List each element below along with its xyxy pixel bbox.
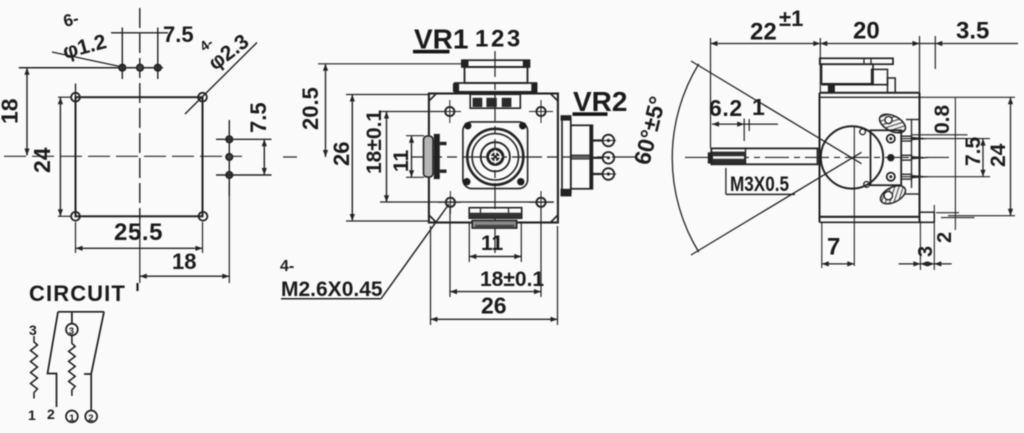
bushing outer circle	[467, 129, 523, 185]
terminal 2 circled (VR2)	[85, 411, 97, 425]
screw M2.6 top-left	[438, 100, 461, 123]
VR2 pin stub 3	[592, 173, 616, 175]
svg-text:60°±5°: 60°±5°	[629, 94, 671, 168]
centerline vertical	[494, 51, 496, 253]
pin 3 lead	[901, 174, 932, 179]
svg-text:7: 7	[827, 234, 840, 261]
screw M2.6 top-right	[529, 100, 553, 123]
rivet bottom-right	[517, 178, 524, 185]
centerline horizontal	[4, 155, 242, 157]
dim 18+-0.1 bottom	[450, 208, 544, 297]
pin 1 eyelet	[887, 135, 895, 143]
rotation fan lower line	[691, 152, 862, 255]
svg-text:7.5: 7.5	[962, 136, 985, 166]
right terminal block	[571, 125, 593, 189]
extension line y97 right	[921, 96, 1016, 98]
right boss column	[561, 115, 572, 196]
svg-text:24: 24	[987, 143, 1010, 167]
label 6-phi1.2	[52, 9, 120, 67]
shaft circle	[481, 142, 510, 171]
mounting hole bottom-right	[199, 212, 208, 221]
VR2 pin stub 2	[592, 157, 602, 159]
dim 26 bottom	[431, 226, 558, 325]
rivet bottom-left	[463, 178, 470, 185]
top pin housing	[470, 94, 520, 108]
svg-text:2: 2	[47, 406, 55, 422]
dim 26 left	[329, 95, 428, 222]
pin hole 3	[155, 28, 161, 80]
side pin hole 2	[226, 154, 232, 160]
shaft body	[711, 148, 817, 164]
side pin hole 3	[216, 172, 272, 178]
stray mark	[136, 283, 138, 291]
rivet top-left	[464, 122, 471, 129]
svg-text:M3X0.5: M3X0.5	[730, 173, 789, 196]
VR2 pin stub 1	[592, 139, 616, 141]
dim 7.5 right	[246, 102, 271, 175]
can rivet top	[860, 129, 866, 135]
svg-text:24: 24	[29, 147, 55, 173]
bushing inner circle	[472, 134, 518, 180]
left clip bracket	[424, 134, 447, 179]
rotation fan arc	[672, 64, 699, 252]
svg-text:3: 3	[915, 246, 937, 257]
svg-text:7.5: 7.5	[246, 102, 271, 133]
top flange strip	[453, 83, 538, 92]
wiper gang top bar	[58, 311, 104, 313]
PCB outline square	[76, 97, 203, 216]
centerline horizontal	[412, 156, 636, 158]
bottom terminal block	[472, 221, 517, 229]
node stem to terminal 3 circled	[71, 312, 73, 324]
dim 22+-1 / 20 / 3.5 line	[711, 6, 1019, 148]
rear step	[920, 212, 934, 222]
round can body	[821, 126, 883, 188]
pin hole 2	[137, 65, 143, 71]
svg-text:2: 2	[934, 232, 956, 243]
screw M2.6 bottom-right	[529, 191, 553, 214]
svg-text:20: 20	[853, 18, 880, 45]
resistor VR2 element	[69, 335, 76, 396]
centerline horizontal dash left	[283, 156, 297, 158]
top connector body	[465, 67, 528, 83]
svg-text:CIRCUIT: CIRCUIT	[29, 281, 126, 306]
dim 0.8	[901, 98, 990, 230]
mounting hole top-right	[198, 93, 207, 102]
svg-text:6-: 6-	[61, 9, 80, 31]
top connector stack	[820, 58, 895, 93]
shaft centerline	[685, 156, 953, 158]
can rivet bottom	[864, 182, 870, 188]
label 4-M2.6X0.45 with leader	[280, 204, 449, 301]
svg-text:0.8: 0.8	[931, 104, 954, 134]
VR2 pin eyelet 1	[603, 135, 615, 147]
inner board line	[911, 120, 913, 188]
pin 2 eyelet (filled)	[887, 154, 894, 161]
cover plate rounded square	[463, 122, 528, 189]
body vertical centerline	[853, 126, 855, 267]
VR2 pin eyelet 3	[603, 168, 615, 180]
terminal board	[871, 130, 902, 185]
svg-text:11: 11	[481, 232, 504, 255]
wire left slant (VR1 wiper)	[48, 312, 59, 407]
svg-text:11: 11	[390, 149, 413, 172]
top cover plate	[461, 60, 530, 68]
shaft tip	[708, 152, 712, 163]
svg-text:1: 1	[752, 94, 765, 120]
dim 11 left	[390, 136, 424, 178]
dim 2 ticks	[934, 213, 975, 243]
dim 18 bottom	[140, 182, 230, 283]
side pin hole 1	[216, 136, 272, 142]
screw M2.6 bottom-left	[438, 191, 461, 214]
dim 20.5	[298, 64, 462, 157]
svg-text:M2.6X0.45: M2.6X0.45	[281, 278, 383, 301]
terminal 1 circled (VR2)	[66, 411, 78, 425]
label 4-phi2.3	[185, 30, 257, 114]
dim 3	[915, 205, 937, 270]
svg-text:26: 26	[481, 293, 507, 319]
svg-text:7.5: 7.5	[163, 22, 194, 47]
pin row line	[19, 67, 163, 69]
wiper tick	[84, 373, 91, 375]
svg-text:20.5: 20.5	[298, 87, 323, 130]
wire right slant (VR2 wiper)	[91, 312, 104, 410]
rotation fan upper line	[691, 61, 862, 164]
bottom solder lug (hatched)	[878, 182, 920, 207]
top solder lug (hatched)	[877, 110, 920, 136]
shaft slot ring	[488, 149, 503, 164]
mounting hole top-left	[71, 93, 80, 102]
svg-text:3: 3	[29, 322, 37, 338]
svg-text:18±0.1: 18±0.1	[480, 268, 544, 291]
dim 7.5 top	[111, 22, 194, 47]
side pin column line	[228, 120, 230, 196]
dim 6.2 and 1	[709, 94, 778, 141]
label VR2	[573, 86, 628, 117]
svg-text:1: 1	[69, 413, 75, 424]
mounting hole bottom-left	[71, 212, 80, 221]
terminal 3 circled (VR2)	[66, 324, 78, 337]
svg-text:18: 18	[0, 98, 23, 124]
body frame	[820, 93, 935, 223]
pin hole 1	[119, 28, 125, 80]
svg-text:18±0.1: 18±0.1	[363, 110, 386, 174]
shaft threaded section M3	[711, 152, 745, 164]
corner chamfer marks	[429, 94, 558, 223]
label VR1	[413, 24, 468, 55]
shaft center	[489, 150, 502, 164]
svg-text:26: 26	[329, 142, 354, 166]
svg-text:±1: ±1	[779, 6, 803, 31]
svg-text:22: 22	[750, 19, 777, 46]
svg-text:2: 2	[88, 413, 93, 424]
pin 3 eyelet	[887, 173, 895, 181]
VR2 pin eyelet 2	[603, 152, 615, 164]
dim 7.5	[901, 136, 990, 176]
dim 11 bottom	[469, 222, 521, 262]
dim 18 left	[0, 68, 30, 156]
svg-text:3: 3	[69, 326, 74, 337]
resistor VR1 element	[31, 336, 38, 399]
centerline vertical	[139, 8, 141, 220]
dim 18+-0.1 left	[363, 110, 554, 203]
bottom pin housing	[469, 208, 522, 219]
svg-text:123: 123	[475, 26, 523, 53]
svg-text:18: 18	[172, 249, 196, 274]
pin 1 lead	[901, 136, 932, 141]
rivet top-right	[519, 122, 526, 129]
dim 25.5 bottom	[76, 219, 203, 253]
pin 2 lead	[901, 155, 932, 160]
svg-text:25.5: 25.5	[114, 219, 163, 246]
svg-text:4-: 4-	[280, 258, 294, 275]
dim 24 left	[29, 97, 72, 216]
svg-text:3.5: 3.5	[956, 18, 989, 45]
svg-text:6.2: 6.2	[709, 95, 743, 121]
dim 24	[948, 97, 1015, 215]
dim 7	[822, 222, 952, 268]
svg-text:1: 1	[28, 407, 36, 423]
body square	[429, 94, 558, 223]
label M3X0.5	[726, 168, 795, 196]
